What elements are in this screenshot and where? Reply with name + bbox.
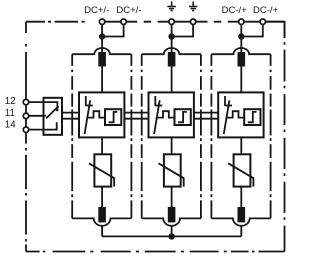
trigger bus lines U1 to U2 [124, 113, 148, 119]
wire: terminal 11 to wiper [29, 115, 46, 117]
svg-text:DC-/+: DC-/+ [222, 5, 248, 16]
wire: bump to bottom bus ch1 [101, 226, 103, 237]
svg-text:DC-/+: DC-/+ [253, 5, 279, 16]
wire: varistor to bottom fuse ch1 [101, 187, 103, 208]
wire: left terminal drop ch2 [171, 22, 173, 37]
wire: node to top fuse ch3 [240, 37, 242, 54]
wire: right terminal L-drop ch1 [102, 22, 124, 37]
wire: DC-/+ terminal pair link [241, 21, 262, 23]
wire: spark gap to varistor ch2 [171, 137, 173, 154]
svg-text:11: 11 [5, 108, 15, 119]
outer frame bottom border (dash-dot) [26, 251, 285, 253]
trigger staircase line U1 [86, 111, 105, 117]
wire: bump to bottom bus ch2 [171, 226, 173, 237]
terminal circle 14 [23, 127, 28, 132]
channel 1 dash-dot enclosure sides [72, 54, 131, 218]
spark gap unit box U2 [149, 92, 194, 137]
terminal circle 11 [23, 113, 28, 118]
spark gap electrode line U3 [224, 96, 226, 106]
spark gap tick U2 [155, 105, 162, 107]
thermal disconnect fuse top F1a [98, 52, 106, 67]
terminal circle 12 [23, 99, 28, 104]
spark gap switch diagonal U1 [85, 100, 91, 134]
varistor RV2 [164, 154, 181, 186]
trigger staircase line U2 [156, 111, 175, 117]
wire: right terminal L-drop ch2 [172, 22, 194, 37]
FM switch box S1 [44, 98, 63, 135]
terminal circle ch3b [260, 19, 265, 24]
channel 2 enclosure bottom edge with disconnector bump [142, 218, 201, 225]
spark gap unit box U1 [79, 92, 124, 137]
svg-text:DC+/-: DC+/- [84, 5, 109, 16]
varistor RV3 [234, 154, 251, 186]
trigger step glyph U1 [109, 112, 118, 122]
wire: DC-/+ right terminal to frame corner [265, 22, 284, 38]
junction node ch3 [238, 33, 244, 39]
spark gap switch diagonal U2 [154, 100, 160, 134]
junction node ch2 [168, 33, 174, 39]
thermal disconnect fuse bottom F1b [98, 207, 106, 222]
wire: right terminal L-drop ch3 [241, 22, 262, 37]
wire: fuse to spark gap box ch1 [101, 67, 103, 93]
varistor diagonal RV2 [159, 163, 184, 186]
wire: node to top fuse ch2 [171, 37, 173, 54]
spark gap electrode line U2 [154, 96, 156, 106]
bottom common bus wire [102, 235, 241, 237]
trigger step glyph U3 [248, 112, 257, 122]
channel 2 enclosure top edge with disconnector bump [142, 48, 201, 54]
wire: left terminal drop ch1 [101, 22, 103, 37]
channel 1 enclosure top edge with disconnector bump [72, 48, 131, 54]
terminal circle ch2a [169, 19, 174, 24]
trigger box U1 [105, 109, 121, 125]
wire: spark gap to varistor ch1 [101, 137, 103, 154]
junction node ch1 [99, 33, 105, 39]
thermal disconnect fuse top F2a [168, 52, 176, 67]
wire: varistor to bottom fuse ch3 [240, 187, 242, 208]
trigger staircase line U3 [226, 111, 245, 117]
wire: left terminal drop ch3 [240, 22, 242, 37]
varistor diagonal RV1 [89, 163, 114, 186]
svg-text:12: 12 [5, 96, 16, 107]
earth symbol 1 [167, 2, 175, 11]
bottom bus junction node [168, 233, 174, 239]
wire: spark gap to varistor ch3 [240, 137, 242, 154]
varistor RV1 [94, 154, 111, 186]
spark gap tick U3 [225, 105, 232, 107]
outer frame left border (dash-dot) [25, 22, 27, 252]
varistor diagonal RV3 [228, 163, 253, 186]
svg-text:DC+/-: DC+/- [116, 5, 141, 16]
outer frame top border (dash-dot) [26, 21, 285, 23]
wire: fuse to spark gap box ch2 [171, 67, 173, 93]
spark gap electrode line U1 [85, 96, 87, 106]
wire: terminal 12 to NO contact [29, 102, 58, 111]
wire: earth terminal pair link [172, 21, 194, 23]
wire: varistor to bottom fuse ch2 [171, 187, 173, 208]
trigger box U2 [175, 109, 191, 125]
terminal circle ch1b [121, 19, 126, 24]
thermal disconnect fuse top F3a [238, 52, 246, 67]
trigger step glyph U2 [178, 112, 187, 122]
terminal circle ch2b [190, 19, 195, 24]
FM wiper diagonal with arrow [46, 106, 58, 118]
channel 3 enclosure top edge with disconnector bump [211, 48, 270, 54]
terminal circle ch3a [239, 19, 244, 24]
wire: DC+/- terminal pair link [102, 21, 124, 23]
channel 1 enclosure bottom edge with disconnector bump [72, 218, 131, 225]
wire: node to top fuse ch1 [101, 37, 103, 54]
thermal disconnect fuse bottom F2b [168, 207, 176, 222]
wire: fuse to spark gap box ch3 [240, 67, 242, 93]
spark gap tick U1 [86, 105, 93, 107]
terminal circle ch1a [99, 19, 104, 24]
thermal disconnect fuse bottom F3b [238, 207, 246, 222]
trigger box U3 [244, 109, 260, 125]
channel 3 dash-dot enclosure sides [211, 54, 270, 218]
wire: bump to bottom bus ch3 [240, 226, 242, 237]
trigger bus lines FM box to U1 [62, 113, 79, 119]
wire: terminal 14 to NC contact hook [29, 122, 57, 129]
outer frame right border (dash-dot) [284, 22, 286, 252]
trigger bus lines U2 to U3 [194, 113, 218, 119]
earth symbol 2 [189, 2, 197, 11]
channel 3 enclosure bottom edge with disconnector bump [211, 218, 270, 225]
spark gap unit box U3 [218, 92, 263, 137]
svg-text:14: 14 [5, 120, 16, 131]
channel 2 dash-dot enclosure sides [142, 54, 201, 218]
spark gap switch diagonal U3 [224, 100, 230, 134]
